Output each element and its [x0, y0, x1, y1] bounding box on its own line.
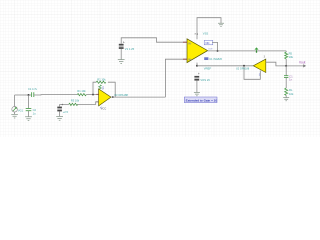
wire U2 plus input to vout node — [266, 62, 286, 66]
ground VSS rail — [218, 23, 224, 26]
node feedback tap — [92, 94, 94, 96]
node vout junction — [285, 65, 287, 67]
node U1 output junction — [217, 50, 219, 52]
svg-text:+: + — [198, 72, 200, 76]
ground V2 — [56, 117, 63, 121]
battery VOS — [194, 72, 200, 80]
svg-text:VS: VS — [101, 86, 104, 90]
wire V1 to ground — [120, 49, 122, 60]
svg-text:3: 3 — [264, 56, 266, 59]
op-amp U2 buffer — [253, 59, 265, 72]
wire VMID box to output — [212, 42, 218, 51]
capacitor C2 shunt — [26, 108, 32, 110]
resistor RL — [285, 88, 288, 95]
node output U3 — [112, 96, 114, 98]
wire shunt cap to ground — [28, 111, 30, 117]
svg-text:C1 4.7u: C1 4.7u — [28, 87, 38, 91]
capacitor C1 series — [32, 92, 34, 97]
svg-text:1n: 1n — [289, 78, 293, 82]
svg-text:VSS: VSS — [203, 31, 209, 35]
svg-text:U2 OPA188: U2 OPA188 — [236, 68, 250, 71]
node junction shunt branch — [28, 94, 30, 96]
svg-text:+2.5: +2.5 — [63, 110, 69, 114]
wire R1 to opamp — [86, 93, 98, 95]
svg-text:V-: V- — [99, 107, 102, 109]
wire feedback right to output — [108, 82, 115, 97]
svg-text:VG1: VG1 — [18, 109, 24, 113]
battery V1 — [119, 40, 125, 49]
svg-text:OUT: OUT — [208, 49, 213, 51]
wire VOS to ground — [196, 81, 198, 93]
wire U1 out corner into R5 — [285, 51, 287, 52]
svg-text:R5: R5 — [289, 51, 293, 55]
op-amp U1 main — [187, 39, 208, 63]
wire source riser — [14, 95, 16, 107]
wire V2 to ground — [59, 111, 61, 116]
resistor R1 — [77, 94, 86, 96]
svg-text:U1 INA826: U1 INA826 — [209, 57, 222, 61]
wire to R1 — [34, 94, 77, 96]
wire U3 output — [111, 96, 165, 98]
svg-text:R3 10k: R3 10k — [71, 98, 80, 102]
source VG1 — [12, 107, 18, 113]
svg-text:V1 1.25: V1 1.25 — [125, 47, 135, 51]
wire U1 Vplus pin to VSS rail — [197, 18, 221, 40]
svg-text:Extended to Gain = 10: Extended to Gain = 10 — [186, 99, 218, 103]
output arrow Vout — [303, 64, 306, 67]
ground VOS — [194, 93, 200, 96]
svg-text:1u: 1u — [33, 111, 36, 115]
ground V1 — [118, 60, 125, 64]
svg-text:IN+: IN+ — [188, 58, 193, 62]
ground shunt — [25, 117, 32, 121]
node ref junction — [196, 65, 198, 67]
op-amp U3 stage1 — [99, 89, 111, 106]
probe marker on wire — [255, 48, 258, 53]
svg-text:7 4: 7 4 — [194, 32, 198, 36]
svg-text:U3 OPA188: U3 OPA188 — [114, 93, 128, 97]
wire vout stub — [286, 65, 303, 67]
wire bias row — [60, 102, 99, 105]
wire riser stage1 to U1 lower input — [165, 59, 187, 97]
battery V2 — [57, 103, 63, 111]
resistor R3 bias — [69, 103, 78, 105]
ground under source — [11, 114, 18, 118]
svg-text:IN-: IN- — [188, 41, 192, 45]
ground RL — [283, 98, 289, 101]
pin stub minus — [96, 93, 98, 95]
wire CL to RL — [285, 77, 287, 88]
wire shunt branch — [28, 95, 30, 108]
wire R5 to vout node — [285, 59, 287, 66]
svg-text:C2: C2 — [33, 108, 37, 112]
wire feedback left riser — [93, 82, 96, 94]
pin number marks left — [183, 42, 187, 59]
pin stub plus — [96, 101, 98, 103]
resistor R2 feedback — [96, 81, 106, 83]
wire U1 ref pin — [196, 63, 198, 66]
resistor R5 — [285, 52, 288, 59]
svg-text:VREF: VREF — [204, 67, 212, 71]
capacitor CL — [284, 76, 288, 78]
wire vout node down — [285, 66, 287, 76]
wire source to ground — [14, 112, 16, 114]
pin label VS+ opamp A — [99, 85, 104, 90]
node U2 feedback junction — [243, 65, 245, 67]
wire input main horizontal — [15, 94, 32, 96]
svg-text:VOS 2V: VOS 2V — [200, 78, 210, 82]
wire U2 output long — [197, 65, 253, 67]
svg-text:R1 10k: R1 10k — [77, 89, 86, 93]
connector box lower U1 — [204, 57, 208, 60]
svg-text:10k: 10k — [289, 55, 294, 59]
svg-text:VIN: VIN — [205, 42, 209, 45]
wire bias left riser — [59, 104, 61, 106]
wire U1 output row — [208, 50, 287, 52]
svg-text:Vout: Vout — [299, 61, 305, 65]
wire U2 feedback loop — [244, 66, 260, 80]
annotation box Extended to Gain — [184, 97, 217, 103]
wire RL to ground — [285, 95, 287, 97]
svg-text:RL: RL — [289, 88, 293, 92]
wire V1 top corner — [121, 38, 187, 44]
connector box VMID — [204, 40, 213, 44]
svg-text:10k: 10k — [289, 92, 294, 96]
svg-text:R2 10k: R2 10k — [97, 77, 106, 81]
